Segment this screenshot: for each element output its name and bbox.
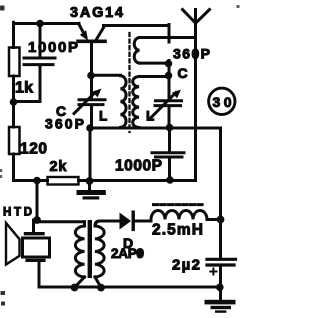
- node junction transformer secondary bottom: [97, 284, 105, 292]
- node junction transformer primary bottom: [71, 284, 79, 292]
- diode D 2AP9: [112, 220, 120, 223]
- variable capacitor C 360P right: [156, 99, 182, 102]
- svg-text:360P: 360P: [173, 46, 210, 62]
- resistor 1k: [9, 48, 20, 77]
- capacitor 1000P (middle): [168, 128, 171, 151]
- wire tank bottom rail: [90, 128, 221, 257]
- node junction left tank bottom: [86, 124, 94, 132]
- node junction bottom right: [216, 284, 224, 292]
- variable capacitor C 360P left: [90, 76, 93, 99]
- capacitor 2µ2 electrolytic: [207, 258, 236, 261]
- wire left rail down to R 1k: [12, 22, 15, 47]
- svg-text:HTD: HTD: [3, 207, 32, 219]
- antenna: [194, 10, 197, 181]
- wire left rail between 1k and 120: [12, 76, 15, 127]
- node junction HTD branch: [33, 177, 41, 185]
- wire collector rail to right: [104, 24, 170, 27]
- svg-text:1000P: 1000P: [115, 158, 162, 175]
- svg-text:3AG14: 3AG14: [70, 5, 123, 21]
- inductor L left tank: [91, 74, 121, 77]
- wire left rail to bottom: [12, 154, 15, 181]
- node junction 1000P mid top: [168, 126, 171, 129]
- wire base lead down: [90, 43, 93, 76]
- resistor 2k: [48, 177, 79, 185]
- svg-text:1000P: 1000P: [28, 39, 78, 56]
- circle meter 30: [209, 88, 235, 114]
- node junction ground node: [86, 177, 94, 185]
- node junction top of 1000P: [36, 20, 44, 28]
- ground (middle): [88, 181, 91, 190]
- svg-text:2.5mH: 2.5mH: [152, 222, 203, 239]
- transformer T1: [83, 222, 86, 226]
- svg-text:2k: 2k: [50, 159, 68, 175]
- svg-text:360P: 360P: [45, 116, 84, 132]
- wire corner down at right tank: [168, 25, 171, 43]
- wire speaker to transformer: [37, 220, 85, 223]
- wire left tank to bias rail: [89, 128, 92, 181]
- svg-text:C: C: [178, 65, 188, 81]
- wire bias rail right: [79, 179, 196, 182]
- node junction right tank bottom: [166, 124, 174, 132]
- node junction coil bottom: [165, 60, 173, 68]
- wire right tank rail: [168, 61, 171, 99]
- ground (bottom right): [219, 287, 222, 300]
- svg-text:1k: 1k: [15, 80, 33, 97]
- inductor L right tank (wavy left edge): [139, 75, 169, 78]
- wire HTD branch down: [36, 181, 39, 221]
- speaker HTD: [32, 220, 35, 232]
- node junction base node: [87, 72, 95, 80]
- wire antenna jog / top of coupling coil: [140, 36, 196, 39]
- node junction inductor out: [217, 216, 225, 224]
- stray scan specks: [0, 6, 5, 11]
- wire bottom bias rail: [14, 179, 48, 182]
- inductor 2.5mH: [151, 211, 207, 220]
- wire top-left supply rail: [14, 22, 80, 25]
- node junction 1000P return: [10, 98, 18, 106]
- capacitor C 1000P (top-left): [39, 24, 42, 57]
- inductor coupling coil (upper right): [134, 38, 139, 64]
- node junction 1000P mid bottom: [166, 176, 174, 184]
- svg-text:2µ2: 2µ2: [172, 257, 200, 274]
- node junction coil top right tank: [165, 72, 173, 80]
- svg-text:L: L: [99, 109, 107, 124]
- resistor 120: [9, 127, 20, 154]
- transformer core dashed (ferrite rod): [128, 33, 130, 132]
- wire ground bottom rail: [39, 286, 221, 289]
- svg-text:120: 120: [20, 141, 47, 158]
- svg-text:30: 30: [213, 94, 232, 110]
- node junction HTD node: [33, 216, 41, 224]
